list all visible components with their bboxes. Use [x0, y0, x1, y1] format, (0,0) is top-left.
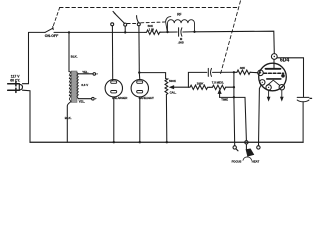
wire 46K to grid pin: [251, 71, 258, 73]
junction tank left: [166, 31, 168, 33]
svg-text:ENLARGER: ENLARGER: [112, 96, 127, 100]
label 6.3V: [81, 83, 88, 87]
dial arc: [243, 157, 252, 160]
heater filament: [267, 80, 279, 85]
tube pin heater 2: [279, 85, 284, 90]
label FOCUS: [232, 160, 242, 164]
grid dashed: [264, 72, 284, 74]
dashed linkage timer contact3 to second blade: [127, 22, 164, 24]
gas dot: [281, 74, 285, 78]
wire coupling network left vertical: [188, 72, 206, 87]
potentiometer 7.5 MEG TIME: [210, 85, 234, 89]
wire timer pole down to line: [124, 26, 126, 32]
svg-text:7.5 MEG.: 7.5 MEG.: [212, 81, 224, 85]
grid pin: [258, 70, 264, 76]
wire plate top cap to output cap: [277, 58, 303, 97]
junction transformer primary top: [68, 31, 70, 33]
capacitor coupling: [208, 68, 234, 76]
label TIME: [221, 98, 228, 102]
wire tank to tube top corner: [195, 31, 275, 53]
wire SAFELIGHT top: [138, 73, 141, 80]
timer contact 1: [111, 23, 114, 26]
transformer T1 primary lead: [68, 32, 70, 71]
pot TIME wiper arrow: [218, 90, 221, 97]
label 100K: [197, 82, 205, 86]
label RF: [177, 13, 181, 17]
wire pot 500K bottom to rail: [165, 95, 167, 143]
wire network vertical down to FOCUS contact: [233, 72, 236, 145]
wire plug upper lead to switch: [23, 33, 29, 84]
potentiometer 500K CAL: [165, 79, 168, 95]
svg-text:SAFELIGHT: SAFELIGHT: [139, 96, 155, 100]
svg-text:BLK.: BLK.: [71, 55, 78, 59]
junction top row: [233, 71, 235, 73]
label SAFELIGHT: [139, 96, 155, 100]
secondary tap YEL top: [78, 73, 92, 75]
junction mid row: [233, 86, 235, 88]
svg-text:FOCUS: FOCUS: [232, 160, 242, 164]
dashed diagonal linkage to timer cam: [220, 1, 241, 76]
cathode bar: [267, 78, 281, 80]
outlet ENLARGER: [105, 80, 122, 97]
terminal circle YEL bottom: [92, 97, 95, 100]
second blade hook: [166, 17, 171, 32]
timer blade: [113, 11, 125, 23]
plate bar: [266, 68, 281, 70]
wire timer contact1 down to ENLARGER outlet: [111, 26, 113, 81]
transformer primary bottom lead: [67, 102, 71, 143]
resistor 50K 1W: [145, 30, 161, 34]
svg-text:ON-OFF: ON-OFF: [45, 34, 59, 38]
label 7.5 MEG: [212, 81, 224, 85]
tube pin cathode: [260, 80, 265, 85]
wire TIME wiper bottom row: [220, 97, 247, 140]
resistor 46K grid: [234, 70, 251, 74]
svg-text:6.3 V: 6.3 V: [81, 83, 88, 87]
tube 6D4 envelope: [259, 63, 287, 91]
tube pin heater 1: [266, 85, 271, 90]
label ENLARGER: [112, 96, 127, 100]
label CAL: [170, 90, 177, 94]
terminal circle YEL top: [93, 73, 96, 76]
svg-text:YEL.: YEL.: [79, 99, 86, 103]
switch ON-OFF blade: [45, 27, 53, 33]
wire top line left of ON-OFF switch: [29, 31, 46, 33]
wire plug lower lead to bottom rail: [23, 90, 31, 142]
plate stem: [273, 59, 275, 68]
contact FOCUS: [233, 146, 236, 149]
wire timer contact3 down through line to SAFELIGHT outlet: [138, 26, 140, 73]
label 117V 60CY: [10, 74, 20, 82]
junction SAFELIGHT rail: [139, 141, 141, 143]
svg-text:500K: 500K: [169, 79, 177, 83]
outlet SAFELIGHT: [131, 80, 148, 97]
wire SAFELIGHT bottom to rail: [139, 97, 141, 142]
capacitor output: [297, 97, 309, 142]
AC plug 117V 60CY: [8, 82, 23, 93]
dashed linkage ON-OFF up to top line: [53, 8, 59, 26]
junction timer pole: [124, 31, 126, 33]
junction tank right: [193, 31, 195, 33]
rotary switch FOCUS/HEAT pole: [245, 141, 248, 144]
label 46K: [240, 66, 246, 70]
junction SAFELIGHT top: [138, 71, 140, 73]
junction bottom row: [233, 96, 235, 98]
label BLK bottom: [65, 116, 72, 120]
wire ENLARGER bottom to rail: [113, 97, 115, 142]
svg-text:100K: 100K: [197, 82, 205, 86]
svg-text:46K: 46K: [240, 66, 246, 70]
pot 500K wiper arrow: [170, 86, 188, 89]
svg-text:.005: .005: [178, 41, 184, 45]
contact HEAT: [257, 146, 260, 149]
wire cathode pin down to HEAT contact: [259, 85, 262, 146]
timer contact 2 (pole): [124, 23, 127, 26]
transformer T1 secondary winding: [77, 73, 78, 99]
tube top cap pin: [271, 54, 277, 60]
svg-text:RF: RF: [177, 13, 181, 17]
secondary tap YEL bottom: [78, 98, 91, 100]
label 500K: [169, 79, 177, 83]
heater 2 stub arrow: [281, 90, 283, 101]
capacitor polarity tick: [310, 97, 312, 99]
wire node to pot 500K: [139, 73, 165, 79]
transformer T1 primary winding: [69, 72, 71, 102]
heater 1 stub arrow: [267, 90, 269, 100]
capacitor .005 in line: [179, 28, 195, 36]
svg-text:YEL.: YEL.: [82, 70, 89, 74]
transformer T1 core: [71, 71, 77, 102]
label .005 MF: [178, 37, 184, 45]
contact FOCUS tick: [236, 149, 238, 151]
wire resistor to LC tank: [161, 31, 178, 33]
label YEL top: [82, 70, 89, 74]
junction ENLARGER rail: [113, 141, 115, 143]
label 50K 1W: [148, 24, 155, 31]
label 6D4: [280, 57, 289, 63]
label ON-OFF: [45, 34, 59, 38]
svg-text:1 W: 1 W: [149, 27, 155, 31]
wire ON-OFF to junction: [54, 31, 145, 33]
svg-text:CAL.: CAL.: [170, 90, 177, 94]
label HEAT: [252, 159, 260, 163]
dashed mechanical linkage top line: [60, 7, 238, 9]
bottom rail: [30, 141, 303, 143]
svg-text:BLK.: BLK.: [65, 116, 72, 120]
RF choke coil: [168, 20, 195, 32]
timer contact 3: [137, 23, 140, 26]
svg-text:60 CY.: 60 CY.: [10, 78, 20, 82]
svg-text:TIME: TIME: [221, 98, 228, 102]
label YEL bottom: [79, 99, 86, 103]
timer cam hook: [137, 16, 139, 23]
svg-text:HEAT: HEAT: [252, 159, 260, 163]
rotor wedge: [245, 144, 247, 150]
junction pot rail: [166, 141, 168, 143]
resistor 100K: [188, 85, 209, 89]
label BLK top: [71, 55, 78, 59]
